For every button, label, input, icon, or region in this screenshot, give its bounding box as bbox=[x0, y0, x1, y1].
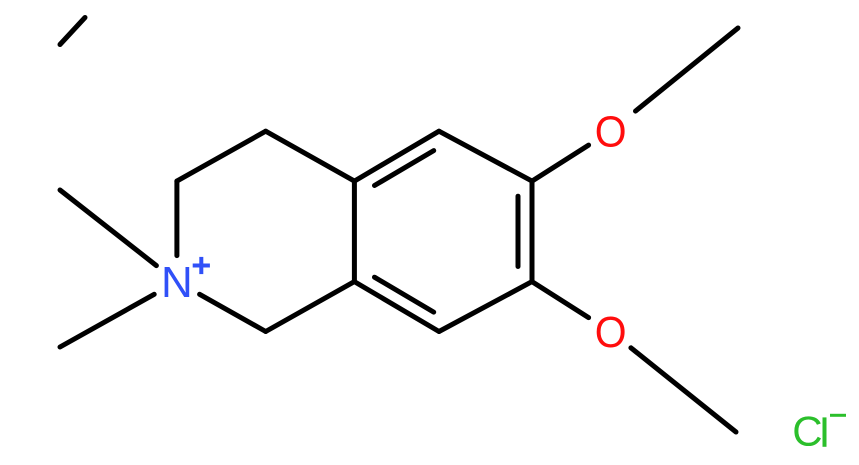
svg-text:C: C bbox=[792, 408, 822, 455]
bond N-methyl lower-left bbox=[60, 294, 154, 347]
atom label O (bottom) bbox=[595, 309, 627, 358]
bond C-N vertical bbox=[174, 181, 179, 256]
svg-text:N: N bbox=[161, 258, 193, 307]
stroke at top-left corner bbox=[60, 18, 85, 45]
inner line of C8a-C8 double bond bbox=[375, 151, 434, 186]
bond C5-C4a (aromatic) bbox=[354, 282, 439, 332]
bond C7-O bbox=[532, 145, 589, 181]
bond O-methyl lower bbox=[631, 348, 736, 432]
bond O-methyl upper bbox=[636, 28, 739, 111]
bond C6-C5 bbox=[439, 282, 532, 332]
bond C3-C4a lower bbox=[266, 282, 355, 332]
atom label O (top) bbox=[595, 108, 627, 157]
bond N-methyl upper-left bbox=[60, 190, 156, 266]
svg-text:O: O bbox=[595, 309, 627, 358]
bond N-C3 bbox=[200, 294, 266, 331]
svg-text:O: O bbox=[595, 108, 627, 157]
bond C4a-C8a fusion bbox=[352, 181, 357, 282]
bond C8a-C1 bbox=[266, 131, 355, 181]
bond C6-O bbox=[532, 282, 589, 318]
inner line of C7-C6 double bond bbox=[516, 196, 521, 266]
bond C8a-C8 (aromatic) bbox=[354, 131, 439, 181]
bond C7-C6 (aromatic) bbox=[530, 181, 535, 282]
bond C8-C7 bbox=[439, 131, 532, 181]
bond C1-N side upper-left bbox=[177, 131, 266, 181]
inner line of C5-C4a double bond bbox=[375, 277, 434, 312]
